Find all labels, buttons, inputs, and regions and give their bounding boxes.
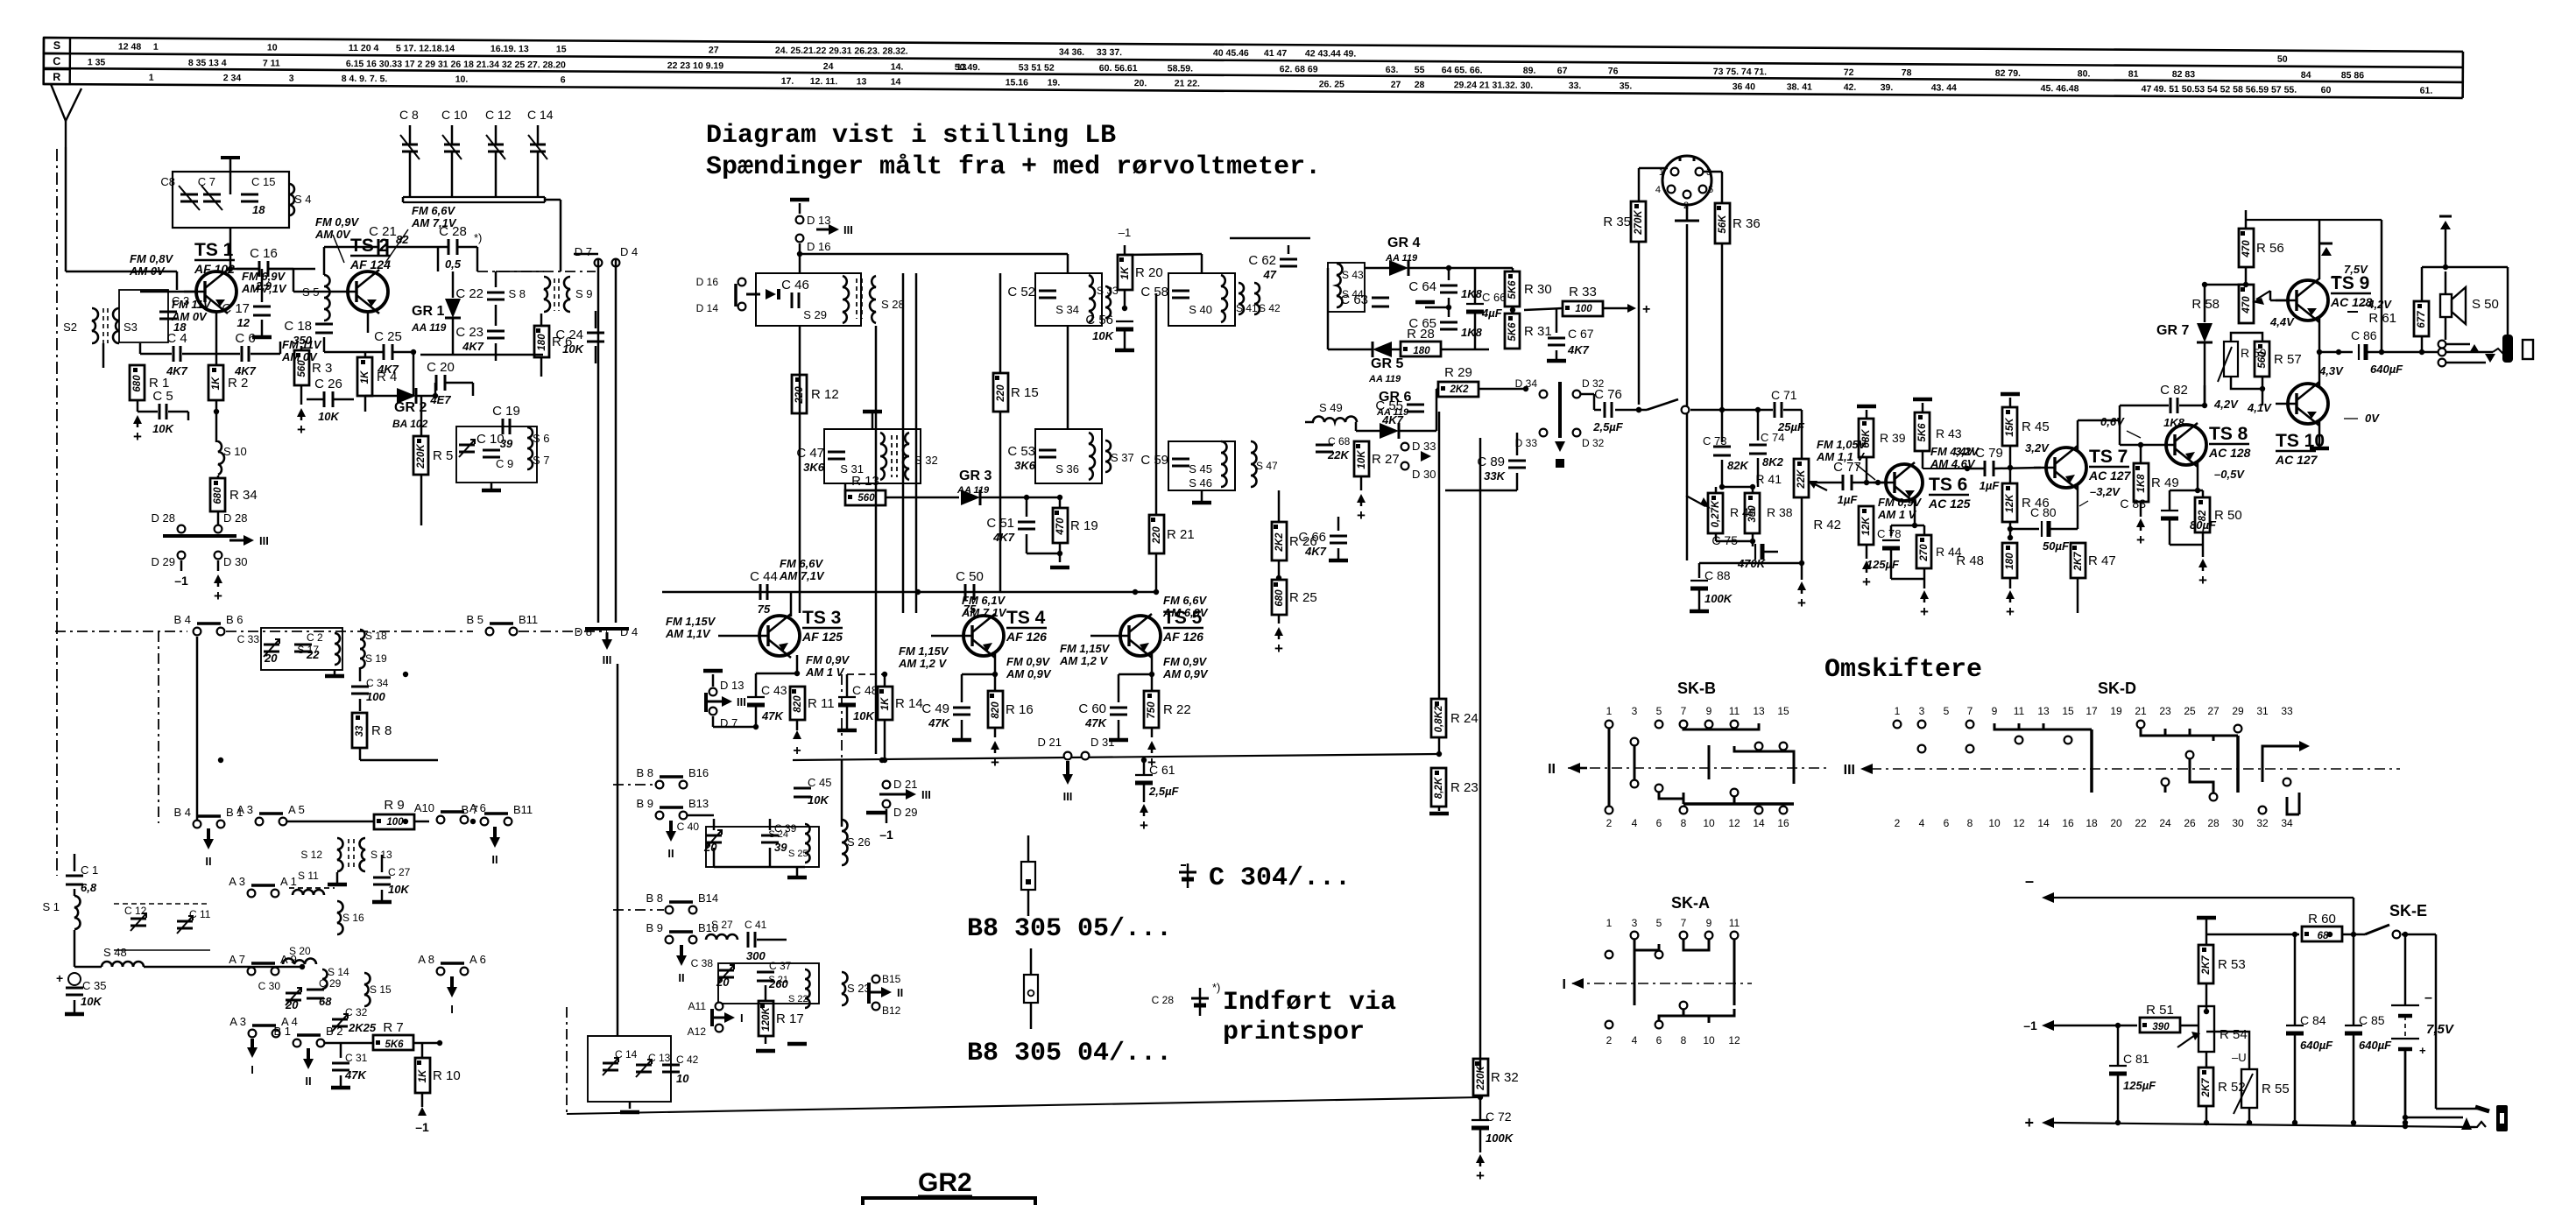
potentiometer R41 [1794, 459, 1809, 497]
svg-text:R 60: R 60 [2308, 912, 2336, 927]
contacts B5 B11 [486, 628, 494, 636]
svg-text:GR 3: GR 3 [959, 469, 992, 483]
capacitor C82 [2170, 398, 2172, 413]
svg-text:III: III [603, 653, 612, 666]
svg-text:S 14: S 14 [328, 966, 349, 978]
contacts B4 B1 row2 [194, 821, 201, 828]
resistor R26 [1272, 522, 1287, 560]
svg-text:20: 20 [264, 652, 278, 665]
spare part symbol 1 [1021, 862, 1035, 890]
svg-text:S2: S2 [63, 321, 77, 334]
svg-text:47: 47 [2142, 84, 2152, 95]
thermistor R55 [2241, 1069, 2257, 1108]
svg-text:10: 10 [1703, 817, 1715, 829]
resistor R42 [1859, 506, 1874, 545]
capacitor C74 [1749, 444, 1767, 447]
svg-text:FM 1,15V: FM 1,15V [899, 645, 949, 658]
capacitor C35 [68, 973, 81, 985]
resistor R57 [2255, 342, 2269, 377]
svg-text:15: 15 [2062, 705, 2074, 717]
svg-text:C 20: C 20 [427, 360, 455, 375]
svg-text:R 47: R 47 [2088, 553, 2116, 568]
capacitor C34 [351, 686, 369, 688]
svg-text:AM 1,1V: AM 1,1V [665, 627, 711, 640]
svg-text:II: II [205, 855, 211, 868]
wire minus rail [2054, 897, 2354, 898]
resistor R51 [2140, 1018, 2180, 1032]
svg-text:D 13: D 13 [720, 679, 744, 692]
transistor TS10 AC127 [2288, 384, 2328, 424]
svg-text:B12: B12 [882, 1004, 901, 1017]
svg-text:AF 126: AF 126 [1006, 630, 1047, 644]
svg-text:B 1: B 1 [273, 1025, 291, 1038]
svg-text:R 33: R 33 [1569, 285, 1597, 299]
svg-text:5: 5 [1944, 705, 1950, 717]
svg-text:0,6V: 0,6V [2100, 415, 2125, 428]
svg-text:18: 18 [2086, 817, 2098, 829]
contacts B9 B13 [656, 812, 664, 820]
svg-text:+: + [2006, 603, 2015, 620]
wire right vertical [2435, 934, 2438, 1109]
wire [544, 271, 596, 272]
svg-text:4K7: 4K7 [1304, 545, 1327, 558]
trimmer C7 [203, 194, 221, 196]
wire R40/R38 bottoms [1715, 533, 1718, 541]
wire GR1 bottom rail [420, 354, 543, 356]
svg-text:+: + [56, 971, 63, 985]
svg-text:19: 19 [2110, 705, 2122, 717]
svg-text:+: + [214, 588, 222, 604]
svg-text:A 3: A 3 [229, 875, 245, 888]
svg-text:R 5: R 5 [433, 448, 453, 463]
component location table (S/C/R rows) [44, 38, 2463, 98]
svg-text:0,5: 0,5 [445, 257, 462, 271]
resistor R30 [1505, 271, 1520, 307]
svg-text:D 28: D 28 [152, 511, 175, 525]
svg-text:GR 4: GR 4 [1387, 236, 1420, 250]
svg-text:C 68: C 68 [1328, 435, 1351, 447]
svg-text:+: + [1274, 640, 1283, 657]
svg-text:C 33: C 33 [237, 633, 260, 645]
wire DIN pin2 down [1686, 525, 1688, 563]
svg-text:4: 4 [1632, 817, 1638, 829]
capacitor C9 [483, 449, 500, 452]
svg-text:5K6: 5K6 [385, 1039, 404, 1050]
svg-text:+: + [1357, 507, 1366, 524]
svg-text:D 30: D 30 [223, 555, 247, 568]
svg-text:820: 820 [793, 695, 803, 713]
svg-text:C 49: C 49 [921, 701, 949, 716]
svg-text:I: I [450, 1003, 454, 1016]
wire [1201, 254, 1203, 273]
headphone jack contacts [2438, 341, 2446, 349]
svg-text:D 33: D 33 [1515, 437, 1538, 449]
svg-text:C 29: C 29 [319, 977, 342, 990]
svg-text:C 12: C 12 [124, 905, 147, 917]
GR2 box [863, 1198, 1035, 1205]
svg-text:2: 2 [1895, 817, 1901, 829]
resistor R33 [1563, 301, 1603, 316]
svg-text:R 30: R 30 [1524, 282, 1552, 297]
svg-text:40 45.46: 40 45.46 [1213, 48, 1249, 59]
svg-text:R 25: R 25 [1289, 590, 1317, 605]
svg-text:A 5: A 5 [288, 803, 305, 816]
wire [1360, 476, 1363, 490]
arrow III [218, 536, 238, 545]
svg-text:D 16: D 16 [807, 240, 830, 253]
plus [1151, 728, 1154, 737]
capacitor C81 [2109, 1065, 2127, 1067]
svg-text:S 36: S 36 [1055, 462, 1079, 476]
wire lower rail y560 [1445, 490, 1517, 491]
resistor R46 [2002, 483, 2017, 522]
svg-text:III: III [843, 223, 853, 236]
svg-text:FM 1,15V: FM 1,15V [666, 615, 716, 628]
trimmer C40 [706, 835, 722, 837]
svg-text:23: 23 [2159, 705, 2171, 717]
svg-text:32: 32 [2256, 817, 2269, 829]
capacitor C39 [761, 835, 779, 837]
svg-text:C 7: C 7 [198, 175, 215, 188]
svg-text:82K: 82K [1727, 459, 1749, 472]
svg-text:10K: 10K [1092, 329, 1114, 342]
svg-text:470: 470 [1055, 518, 1066, 536]
svg-text:S 48: S 48 [103, 946, 127, 959]
capacitor C89 [1508, 460, 1526, 462]
wire dash rail y721 [55, 631, 187, 632]
svg-text:26: 26 [2184, 817, 2196, 829]
svg-text:47K: 47K [1084, 716, 1107, 729]
capacitor C72 [1471, 1119, 1489, 1121]
svg-text:100K: 100K [1704, 592, 1733, 605]
wire S3 bottom to C4 [139, 343, 142, 354]
wire antenna downlead [56, 149, 58, 876]
resistor R29 [1438, 382, 1479, 397]
svg-text:25: 25 [2184, 705, 2196, 717]
svg-text:C 31: C 31 [345, 1052, 368, 1064]
svg-text:76: 76 [1608, 66, 1619, 76]
svg-text:B 7: B 7 [461, 803, 478, 816]
svg-text:–1: –1 [2023, 1018, 2037, 1032]
trimmer C13 [636, 1064, 652, 1067]
svg-text:D 29: D 29 [893, 806, 917, 819]
svg-text:C 42: C 42 [676, 1053, 699, 1066]
svg-text:B 8: B 8 [646, 891, 663, 905]
svg-text:680: 680 [132, 375, 143, 392]
svg-text:S 17: S 17 [297, 644, 319, 656]
wire TS3 emitter-collector node [792, 655, 794, 674]
svg-text:1: 1 [149, 73, 154, 83]
svg-text:5: 5 [1656, 917, 1662, 929]
svg-text:printspor: printspor [1223, 1018, 1365, 1047]
svg-text:D 34: D 34 [1515, 377, 1538, 390]
svg-text:7,5V: 7,5V [2344, 263, 2368, 276]
svg-text:89.: 89. [1523, 66, 1536, 76]
svg-text:*): *) [474, 231, 482, 244]
svg-text:27: 27 [2207, 705, 2220, 717]
thermistor R59 [2224, 342, 2238, 377]
svg-text:FM 0,9V: FM 0,9V [1163, 655, 1207, 668]
svg-text:4,1V: 4,1V [2247, 401, 2272, 414]
svg-text:50.49.: 50.49. [955, 62, 980, 73]
capacitor C63 [1372, 297, 1389, 299]
svg-text:17.: 17. [781, 76, 794, 87]
coil S27 [706, 934, 738, 940]
svg-text:13: 13 [2037, 705, 2050, 717]
resistor R52 [2198, 1068, 2213, 1106]
svg-text:R: R [53, 71, 60, 83]
capacitor C42 [662, 1064, 680, 1067]
svg-text:D 31: D 31 [1090, 736, 1114, 749]
diode GR6 [1380, 423, 1399, 439]
svg-text:82: 82 [2198, 510, 2208, 521]
coil S49 [1313, 416, 1357, 422]
svg-text:64 65. 66.: 64 65. 66. [1442, 65, 1483, 75]
svg-text:Indført via: Indført via [1223, 988, 1396, 1018]
svg-text:FM 6,6V: FM 6,6V [412, 204, 455, 217]
svg-text:AC 128: AC 128 [2208, 446, 2251, 460]
svg-text:1K8: 1K8 [1461, 287, 1483, 300]
svg-text:C 63: C 63 [1340, 292, 1368, 307]
wire TS5 emitter [1151, 652, 1154, 674]
plus [297, 408, 306, 417]
svg-text:42 43.44 49.: 42 43.44 49. [1305, 48, 1357, 59]
svg-text:60. 56.61: 60. 56.61 [1099, 63, 1138, 74]
wire TS8 collector up to TS9 circuitry [2197, 405, 2198, 428]
resistor R58 with arrow [2239, 285, 2254, 323]
svg-text:S 10: S 10 [223, 445, 247, 458]
contacts A3 A1 [248, 890, 256, 898]
svg-text:47K: 47K [344, 1068, 367, 1082]
capacitor C3 [159, 307, 177, 309]
svg-text:220: 220 [996, 384, 1006, 403]
coil S16 [337, 901, 343, 934]
svg-text:470: 470 [2241, 240, 2252, 258]
resistor R49 [2134, 463, 2149, 502]
svg-text:47K: 47K [928, 716, 950, 729]
svg-text:15K: 15K [2005, 418, 2015, 437]
svg-text:C 1: C 1 [81, 863, 98, 877]
svg-text:3K6: 3K6 [1014, 459, 1036, 472]
svg-text:8,2K: 8,2K [1434, 777, 1444, 799]
wire TS2 emitter down [367, 312, 370, 333]
svg-text:C 46: C 46 [781, 278, 809, 292]
svg-text:220: 220 [1152, 526, 1162, 545]
wire R59/R57 net [2230, 335, 2232, 342]
wire top rail to TS9 [2246, 209, 2330, 211]
capacitor C26 [323, 391, 326, 407]
svg-text:22K: 22K [1327, 448, 1350, 462]
wire R58 tap to TS9 base [2270, 287, 2277, 291]
tank C58 S40 [1168, 273, 1235, 326]
svg-text:85 86: 85 86 [2341, 70, 2365, 81]
svg-text:A11: A11 [688, 1000, 707, 1012]
svg-text:4: 4 [1919, 817, 1925, 829]
svg-text:100K: 100K [1486, 1131, 1514, 1145]
svg-text:47K: 47K [761, 709, 784, 722]
svg-text:B 9: B 9 [646, 921, 663, 934]
switch SK-D axis [1871, 768, 2400, 770]
svg-text:21: 21 [2135, 705, 2147, 717]
svg-text:S 49: S 49 [1319, 401, 1343, 414]
svg-text:270K: 270K [1634, 210, 1644, 236]
trimmer C38 [718, 969, 734, 972]
svg-text:1K8: 1K8 [2136, 474, 2147, 493]
svg-text:AM 1,2 V: AM 1,2 V [1059, 654, 1109, 667]
svg-text:75: 75 [758, 602, 771, 616]
svg-text:+: + [2198, 572, 2207, 588]
resistor R3 [294, 350, 309, 385]
svg-text:S 20: S 20 [289, 945, 311, 957]
svg-text:B 5: B 5 [466, 613, 483, 626]
svg-text:C8: C8 [160, 175, 175, 188]
svg-text:B14: B14 [698, 891, 718, 905]
svg-text:125µF: 125µF [2123, 1079, 2156, 1092]
svg-text:C 3: C 3 [172, 294, 189, 307]
svg-text:390: 390 [2152, 1022, 2170, 1032]
capacitor C15 [241, 194, 258, 196]
svg-text:SK-A: SK-A [1671, 894, 1710, 912]
resistor R34 [210, 478, 225, 511]
capacitor C50 [964, 584, 967, 600]
wire from GR6 out to D33 contacts [1436, 430, 1480, 432]
resistor R43 [1915, 412, 1930, 451]
capacitor C66 [1466, 303, 1484, 305]
oscillator box [588, 1036, 671, 1102]
svg-text:1 35: 1 35 [88, 57, 106, 67]
svg-text:AM 0,9V: AM 0,9V [1006, 667, 1052, 680]
svg-text:680: 680 [1274, 589, 1285, 607]
svg-text:6,8: 6,8 [81, 881, 97, 894]
svg-text:B16: B16 [688, 766, 709, 779]
svg-text:42.: 42. [1844, 82, 1857, 93]
svg-text:S 34: S 34 [1055, 303, 1079, 316]
resistor R5 [413, 436, 428, 475]
svg-text:14: 14 [891, 77, 901, 88]
svg-text:D 21: D 21 [893, 778, 917, 791]
resistor R15 [993, 373, 1008, 412]
resistor R36 [1715, 203, 1730, 243]
plus rail [2042, 1117, 2054, 1128]
coil S10 [218, 441, 224, 475]
ground [490, 483, 493, 489]
svg-text:C 25: C 25 [374, 329, 402, 344]
svg-text:1: 1 [153, 42, 159, 53]
svg-text:C 60: C 60 [1078, 701, 1106, 716]
svg-text:2K7: 2K7 [2201, 955, 2212, 976]
svg-text:0,27K: 0,27K [1711, 500, 1721, 527]
svg-text:R 11: R 11 [808, 696, 835, 711]
svg-text:38. 41: 38. 41 [1787, 81, 1812, 92]
svg-text:R 38: R 38 [1767, 505, 1793, 519]
wire left vertical to C1 [74, 854, 76, 871]
svg-text:C 30: C 30 [258, 980, 281, 992]
svg-text:2K7: 2K7 [2073, 552, 2084, 572]
arrow III right [787, 217, 789, 242]
svg-text:17: 17 [2086, 705, 2098, 717]
svg-text:13: 13 [857, 76, 867, 87]
svg-text:470: 470 [2241, 296, 2252, 314]
svg-text:S 9: S 9 [575, 287, 593, 300]
svg-text:C: C [53, 55, 60, 67]
svg-text:C 47: C 47 [796, 446, 824, 461]
capacitor C16 [258, 261, 261, 277]
svg-text:R 61: R 61 [2368, 311, 2396, 326]
wire collector loop [324, 246, 378, 249]
wire TS9 emitter down to output node [2318, 317, 2321, 352]
jack plug [2502, 335, 2513, 363]
svg-text:R 45: R 45 [2022, 419, 2050, 434]
wire [804, 863, 806, 867]
svg-text:6: 6 [561, 74, 566, 85]
svg-text:S 27: S 27 [711, 919, 733, 931]
capacitor C73 [1713, 446, 1731, 448]
svg-text:Omskiftere: Omskiftere [1824, 655, 1982, 685]
svg-text:R 3: R 3 [312, 361, 332, 376]
svg-text:12: 12 [237, 316, 251, 329]
svg-text:BA 102: BA 102 [392, 418, 428, 430]
svg-text:C 85: C 85 [2359, 1013, 2385, 1027]
svg-text:R 16: R 16 [1006, 702, 1034, 717]
capacitor C75 [1754, 544, 1756, 560]
svg-text:750: 750 [1147, 701, 1157, 719]
svg-text:5: 5 [1708, 185, 1713, 195]
plug line 1 [2436, 1108, 2481, 1110]
svg-text:–1: –1 [174, 574, 188, 588]
wire long vertical x1690 [1479, 438, 1482, 1070]
svg-text:2K2: 2K2 [1274, 532, 1285, 553]
svg-text:82 83: 82 83 [2172, 69, 2196, 80]
diode GR5 [1373, 342, 1392, 357]
svg-text:29: 29 [2232, 705, 2244, 717]
svg-text:220: 220 [794, 386, 805, 405]
svg-text:C 304/...: C 304/... [1209, 863, 1351, 893]
svg-text:2,5µF: 2,5µF [1592, 420, 1624, 433]
capacitor C19 [502, 419, 505, 434]
svg-text:2: 2 [1606, 817, 1613, 829]
svg-text:12: 12 [1728, 1034, 1740, 1046]
svg-text:FM 1,15V: FM 1,15V [1060, 642, 1111, 655]
svg-text:640µF: 640µF [2370, 363, 2403, 376]
svg-text:B 6: B 6 [226, 613, 243, 626]
svg-text:S 4: S 4 [294, 193, 312, 206]
ground [1059, 553, 1062, 562]
svg-text:B15: B15 [882, 973, 901, 985]
transistor TS9 AC128 [2288, 280, 2328, 321]
svg-text:C 72: C 72 [1486, 1110, 1512, 1124]
svg-text:58.59.: 58.59. [1168, 63, 1193, 74]
svg-text:1K: 1K [880, 697, 891, 710]
antenna [51, 84, 66, 121]
text C 304 [1187, 863, 1189, 888]
svg-text:11 20 4: 11 20 4 [349, 43, 379, 53]
svg-text:R 48: R 48 [1956, 553, 1984, 568]
capacitor C41 [747, 932, 750, 948]
capacitor C6 [241, 346, 243, 362]
svg-text:B 2: B 2 [326, 1025, 343, 1038]
svg-text:C 41: C 41 [745, 919, 767, 931]
wire verticals [1067, 326, 1069, 429]
resistor R6 [534, 326, 549, 357]
svg-text:15.16: 15.16 [1006, 77, 1029, 88]
svg-text:AC 125: AC 125 [1928, 497, 1971, 511]
svg-text:B8 305 04/...: B8 305 04/... [967, 1039, 1172, 1068]
plus [214, 574, 222, 583]
svg-text:S 6: S 6 [533, 432, 550, 445]
wire [364, 870, 366, 874]
coil S20 [283, 959, 316, 965]
ground [2197, 916, 2216, 920]
